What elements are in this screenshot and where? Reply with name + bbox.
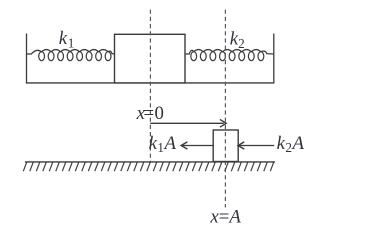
label x=A: [209, 207, 241, 228]
spring k2: [185, 50, 273, 61]
block on ground (free body): [213, 130, 238, 162]
label k2: [230, 29, 245, 52]
svg-text:k2: k2: [230, 29, 245, 52]
svg-text:x=0: x=0: [136, 103, 164, 124]
spring k1: [27, 50, 114, 61]
label x=0: [136, 103, 164, 124]
svg-text:k1A: k1A: [149, 133, 177, 155]
node x=A dashed reference line: [224, 10, 226, 208]
label k1: [59, 28, 75, 51]
ground hatching: [23, 162, 273, 171]
ground line: [25, 161, 275, 163]
wire right wall: [273, 34, 275, 84]
node x=0 dashed reference line: [149, 10, 151, 162]
label k2A: [277, 133, 305, 155]
mass block M: [115, 34, 186, 83]
svg-text:k2A: k2A: [277, 133, 305, 155]
svg-text:x=A: x=A: [209, 207, 241, 228]
wire displacement arrow x0 to A: [150, 119, 226, 127]
wire left wall: [26, 34, 28, 84]
wire track floor: [26, 82, 275, 84]
force arrow k1A: [181, 142, 213, 149]
svg-text:k1: k1: [59, 28, 75, 51]
force arrow k2A: [238, 142, 274, 149]
label k1A: [149, 133, 177, 155]
